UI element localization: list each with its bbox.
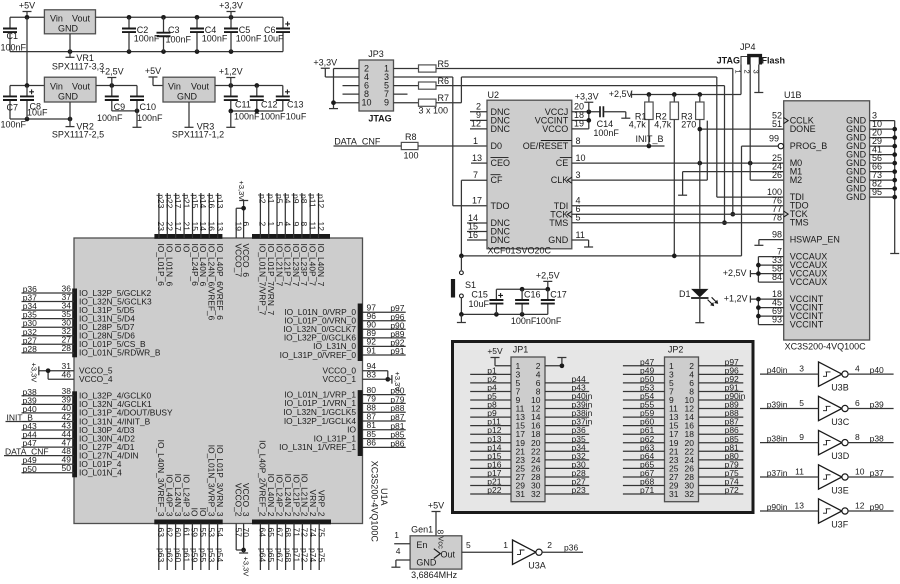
wire JP3 pins 2,10 ground net: [331, 69, 359, 109]
wire U1A pin 1 net p1: [266, 193, 276, 316]
svg-text:11: 11: [795, 467, 804, 477]
ground C11 bus: [226, 111, 235, 127]
svg-text:91: 91: [367, 345, 377, 355]
svg-text:10: 10: [855, 467, 865, 477]
svg-text:13: 13: [215, 222, 225, 232]
svg-text:U3C: U3C: [831, 417, 850, 427]
svg-text:19: 19: [574, 119, 584, 129]
svg-text:100nF: 100nF: [1, 119, 27, 129]
svg-text:IO_L40P_6/VREF_6: IO_L40P_6/VREF_6: [215, 244, 225, 321]
power symbol +3,3V: [219, 1, 243, 18]
svg-text:+5V: +5V: [145, 66, 161, 76]
inverter U3D: [819, 430, 850, 461]
wire U1A VCCO_0/VCCO_1 pins 94,83: [322, 361, 390, 384]
wire U1A pin 79 net p79: [284, 394, 405, 409]
svg-text:+3,3V: +3,3V: [237, 181, 246, 201]
svg-text:IO_L32P_1/GCLK4: IO_L32P_1/GCLK4: [284, 416, 357, 426]
resistor R7: [419, 93, 450, 116]
wire JP3 pin7 stub: [394, 93, 408, 95]
svg-text:U3F: U3F: [831, 520, 849, 530]
svg-text:4: 4: [855, 364, 860, 374]
wire U1A pin 67 net p67: [275, 474, 285, 570]
svg-text:U1A: U1A: [379, 488, 389, 506]
svg-text:10: 10: [576, 153, 586, 163]
wire U2 CF to S1 net: [461, 180, 487, 256]
wire +2,5V rail to JP4 pin1: [632, 65, 742, 97]
svg-text:100nF: 100nF: [1, 42, 27, 52]
wire U1A pin 37 net p37: [22, 292, 152, 307]
wire JP2 pin 2 net p97: [699, 357, 744, 367]
svg-text:8: 8: [576, 136, 581, 146]
svg-text:86: 86: [367, 438, 377, 448]
svg-text:JP2: JP2: [668, 345, 684, 355]
wire JP1 pin 16 net p37in: [545, 417, 593, 427]
wire JP2 pin 27 net p67: [623, 468, 665, 478]
capacitor C9: [97, 86, 125, 124]
svg-text:46: 46: [62, 370, 72, 380]
wire U1A pin 12 net p12: [316, 193, 326, 287]
resistor R8: [401, 132, 418, 160]
inverter U3C: [819, 396, 850, 427]
wire JP2 pin 1 net p47: [623, 357, 665, 367]
svg-text:PROG_B: PROG_B: [790, 141, 828, 151]
svg-text:p13: p13: [215, 194, 225, 208]
capacitor C3: [157, 17, 192, 51]
wire JP2 pin 16 net p87: [699, 417, 744, 427]
svg-text:100: 100: [404, 150, 419, 160]
wire U1A pin 80 net p80: [284, 385, 405, 400]
wire U2 pin 2 DNC stub: [470, 102, 487, 112]
svg-text:100nF: 100nF: [166, 35, 192, 45]
U1A bottom bank3 pin group bar: [154, 520, 222, 525]
wire U1A pin 49 net p49: [22, 455, 122, 470]
wire U1A pin 97 net p97: [284, 303, 405, 318]
wire JP1 pin 7 net p4: [470, 382, 511, 392]
svg-text:OE/RESET: OE/RESET: [523, 141, 569, 151]
wire JP2 pin 3 net p49: [623, 365, 665, 375]
svg-text:51: 51: [772, 119, 782, 129]
svg-text:GND: GND: [548, 235, 569, 245]
wire U1A pin 50 net p50: [22, 463, 123, 478]
inverter U3A: [513, 540, 546, 570]
resistor R2 4,7k: [654, 95, 678, 256]
svg-text:100nF: 100nF: [134, 34, 160, 44]
power symbol +5V at Gen1: [428, 501, 444, 536]
svg-text:p91: p91: [390, 346, 404, 356]
wire U1A VCCO_5/VCCO_4 pins 31,46: [46, 361, 113, 384]
power symbol +5V at JP1 pin1: [487, 346, 511, 366]
wire JP1 pin 15 net p11: [470, 417, 511, 427]
svg-text:12: 12: [855, 501, 865, 511]
svg-text:9: 9: [799, 432, 804, 442]
wire U1A pin 4 net p4: [283, 193, 293, 286]
wire U1A pin 55 net p55: [198, 508, 208, 570]
ground C14: [603, 112, 630, 118]
wire JP1 pin 27 net p17: [470, 468, 511, 478]
wire U1B HSWAP_EN to ground: [754, 229, 783, 245]
svg-text:+3,3V: +3,3V: [575, 91, 599, 101]
power symbol +1,2V: [219, 67, 243, 86]
svg-text:5: 5: [576, 213, 581, 223]
node U1B TDI number: [767, 187, 782, 197]
svg-text:+5V: +5V: [19, 1, 35, 11]
svg-text:C11: C11: [235, 99, 251, 109]
svg-text:Vout: Vout: [191, 82, 210, 92]
wire JP2 pin 14 net p88: [699, 408, 744, 418]
wire JP3 pin1 to R5: [394, 68, 419, 70]
svg-text:S1: S1: [465, 280, 476, 290]
connector frame JP1/JP2: [453, 342, 754, 513]
svg-text:8: 8: [436, 530, 446, 535]
svg-text:p22: p22: [487, 485, 501, 495]
wire JP1 pin 30 net p27: [545, 477, 589, 487]
wire JP1 pin 13 net p9: [470, 408, 511, 418]
wire U2 TDI from U1B TDO: [572, 196, 784, 206]
wire VR3 output +1,2V: [215, 83, 283, 88]
wire JP3 pin9 to R7: [394, 102, 419, 104]
ground JP4 pin3: [754, 65, 763, 93]
connector JP3 JTAG: [359, 49, 394, 124]
capacitor C16: [511, 289, 541, 326]
power symbol +1,2V at U1B VCCINT: [724, 294, 759, 304]
svg-text:U3E: U3E: [831, 486, 849, 496]
svg-text:100nF: 100nF: [97, 113, 123, 123]
node U2 pin1 D0 number: [473, 136, 478, 146]
svg-text:4,7k: 4,7k: [629, 119, 647, 129]
wire JP2 pin 5 net p50: [623, 374, 665, 384]
wire JP1 pin 21 net p14: [470, 442, 511, 452]
svg-text:1: 1: [473, 136, 478, 146]
svg-text:9: 9: [384, 98, 389, 108]
node U1B TMS number: [772, 212, 782, 222]
power symbol +3,3V top VCCO: [237, 181, 248, 209]
wire U1A pin 60 net p60: [173, 474, 183, 570]
svg-text:100nF: 100nF: [202, 34, 228, 44]
svg-text:2: 2: [547, 540, 552, 550]
svg-text:R7: R7: [438, 93, 450, 103]
wire TMS bus U2-U1B: [572, 213, 784, 223]
capacitor C4: [190, 17, 228, 51]
svg-text:+3,3V: +3,3V: [313, 58, 337, 68]
wire JP1 pin 32 net p23: [545, 485, 589, 495]
wire JP1 pin 24 net p32: [545, 451, 589, 461]
capacitor C1: [1, 17, 27, 52]
svg-text:+2,5V: +2,5V: [723, 268, 747, 278]
svg-text:6: 6: [241, 222, 251, 227]
svg-text:28: 28: [62, 343, 72, 353]
svg-text:270: 270: [681, 119, 696, 129]
svg-text:p37in: p37in: [767, 468, 788, 478]
capacitor C5: [224, 17, 262, 51]
wire Gen1 Out to U3A: [462, 540, 513, 552]
wire JP1 pin 22 net p34: [545, 442, 589, 452]
FPGA U1B XC3S200-4VQ100C: [784, 90, 870, 352]
svg-text:R5: R5: [438, 59, 450, 69]
wire JP2 pin 8 net p91: [699, 382, 744, 392]
wire U1A pin 21 net p21: [181, 193, 191, 253]
wire R8 to U2 D0: [418, 145, 487, 147]
svg-text:GND: GND: [177, 92, 198, 102]
wire JP2 pin 15 net p60: [623, 417, 665, 427]
svg-text:CEO: CEO: [491, 158, 511, 168]
svg-text:Vout: Vout: [72, 14, 91, 24]
svg-text:100nF: 100nF: [511, 316, 537, 326]
svg-text:TMS: TMS: [549, 218, 568, 228]
wire JP3 pin6 stub: [343, 85, 360, 87]
svg-text:IO_L01N_5/RDWR_B: IO_L01N_5/RDWR_B: [79, 348, 161, 358]
svg-text:Vout: Vout: [72, 82, 91, 92]
wire U1A pin 40 net p40: [22, 403, 173, 418]
svg-text:+2,5V: +2,5V: [536, 271, 560, 281]
svg-text:GND: GND: [846, 192, 867, 202]
wire R5 to TCK bus (net TCK): [436, 69, 735, 217]
wire U1B VCCAUX bus: [756, 246, 784, 282]
svg-text:32: 32: [685, 489, 695, 499]
svg-text:p71: p71: [640, 485, 654, 495]
wire U1A pin 75 net p75: [317, 490, 327, 570]
wire U1A pin 89 net p89: [284, 328, 406, 343]
node DATA_CNF: [334, 136, 381, 146]
capacitor C17: [536, 289, 567, 326]
regulator VR3 SPX1117-1,2: [163, 77, 224, 139]
wire U1A pin 68 net p68: [283, 474, 293, 570]
node U1B M0 number: [772, 153, 782, 163]
wire U1A pin 32 net p32: [22, 326, 136, 341]
svg-text:R8: R8: [405, 132, 417, 142]
wire PROG_B net to S1/R2: [459, 146, 741, 258]
svg-text:p40: p40: [870, 365, 884, 375]
wire JP1 pin 14 net p38in: [545, 408, 593, 418]
wire JP1 pin2 power stub: [545, 358, 566, 369]
svg-text:+1,2V: +1,2V: [219, 67, 243, 77]
svg-text:83: 83: [367, 370, 377, 380]
ground U1B GND bus: [890, 253, 899, 255]
svg-text:JP1: JP1: [513, 345, 529, 355]
svg-text:10uF: 10uF: [263, 34, 284, 44]
wire TCK bus U2-U1B: [572, 204, 784, 214]
capacitor C6 (polarized): [263, 17, 290, 51]
ground M1: [678, 194, 687, 196]
svg-text:VCCAUX: VCCAUX: [790, 277, 828, 287]
svg-text:1: 1: [503, 540, 508, 550]
wire U2 CLK from U1B CCLK: [572, 121, 708, 181]
wire U1A pin 30 net p30: [22, 318, 135, 333]
svg-text:C1: C1: [7, 31, 19, 41]
wire U1A pin 36 net p36: [22, 283, 152, 298]
svg-text:5: 5: [466, 540, 471, 550]
svg-text:CE: CE: [556, 158, 569, 168]
U1A left bank4 pin group bar: [72, 391, 77, 477]
wire JP2 pin 31 net p71: [623, 485, 665, 495]
wire U1A pin 61 net p61: [181, 474, 191, 570]
resistor R3 270: [681, 95, 704, 289]
wire U3B input net p40in: [760, 364, 819, 376]
wire JP1 pin 18 net p36: [545, 425, 589, 435]
svg-text:Vin: Vin: [50, 14, 63, 24]
wire U1B VCCINT bus: [756, 289, 784, 325]
svg-text:98: 98: [772, 229, 782, 239]
wire JP1 pin 9 net p5: [470, 391, 511, 401]
capacitor C2: [122, 17, 160, 51]
inverter U3B: [819, 362, 849, 393]
wire U1B M1 to ground: [683, 172, 784, 196]
wire VR2 output +2,5V: [96, 83, 137, 88]
power symbol +3,3V left VCCO: [29, 363, 48, 383]
wire U1A pin 96 net p96: [284, 311, 405, 326]
svg-text:+5V: +5V: [428, 501, 444, 511]
wire U1A pin 38 net p38: [22, 386, 152, 401]
wire JP2 pin 30 net p74: [699, 477, 744, 487]
resistor R5: [419, 59, 450, 72]
wire U1A pin 34 net p34: [22, 300, 135, 315]
svg-text:C17: C17: [550, 290, 567, 300]
svg-text:100nF: 100nF: [236, 34, 262, 44]
capacitor C10: [130, 86, 163, 124]
svg-text:93: 93: [772, 314, 782, 324]
svg-text:31: 31: [669, 489, 679, 499]
wire caps +2,5V rail: [496, 287, 550, 292]
svg-text:JP4: JP4: [740, 42, 756, 52]
wire JP2 pin 6 net p92: [699, 374, 744, 384]
capacitor C13 (polarized): [276, 86, 307, 122]
wire U1A pin 91 net p91: [280, 345, 406, 360]
capacitor C14: [593, 106, 619, 138]
FPGA U1A XC3S200-4VQ100C (I/O banks): [74, 238, 389, 542]
svg-text:+2,5V: +2,5V: [100, 67, 124, 77]
svg-text:50: 50: [62, 463, 72, 473]
svg-text:GND: GND: [58, 92, 79, 102]
wire U1A pin 59 net p59: [190, 508, 200, 570]
svg-text:+2,5V: +2,5V: [609, 89, 633, 99]
svg-text:p38in: p38in: [767, 434, 788, 444]
svg-text:3: 3: [799, 364, 804, 374]
wire U1A pin 42 net INIT_B: [6, 412, 151, 427]
wire U3B output net p40: [848, 364, 894, 376]
ground VR1: [66, 34, 75, 58]
svg-text:C10: C10: [140, 102, 157, 112]
wire row2 left ground bus: [10, 117, 72, 122]
svg-text:CF: CF: [491, 175, 503, 185]
svg-text:p12: p12: [316, 194, 326, 208]
svg-text:84: 84: [772, 272, 782, 282]
wire U1A pin 88 net p88: [283, 403, 405, 418]
svg-text:p39in: p39in: [767, 400, 788, 410]
wire U2 VCCJ/VCCINT/VCCO to +3,3V bus: [572, 102, 600, 129]
ground JP3: [329, 108, 338, 110]
ground VR2: [66, 102, 75, 127]
ground VR3: [185, 102, 194, 127]
wire U1A pin 14 net p14: [198, 193, 208, 287]
wire JP1 pin 3 net p1: [470, 365, 511, 375]
svg-text:54: 54: [215, 528, 225, 538]
svg-text:100nF: 100nF: [536, 316, 562, 326]
U1A right bank0 pin group bar: [358, 304, 363, 362]
wire JP2 pin 17 net p61: [623, 425, 665, 435]
inverter U3F: [819, 499, 849, 530]
wire JP2 pin 25 net p65: [623, 459, 665, 469]
pushbutton S1: [451, 256, 476, 315]
wire U1A pin 2 net p2: [258, 193, 268, 316]
wire JP1 pin 25 net p16: [470, 459, 511, 469]
svg-text:1: 1: [734, 70, 743, 74]
power symbol +2,5V rail: [609, 89, 633, 99]
wire U1A pin 39 net p39: [22, 395, 152, 410]
U1A right bank1 pin group bar: [358, 390, 363, 456]
wire U2 pin 12 DNC stub: [470, 119, 487, 129]
svg-text:p28: p28: [23, 344, 37, 354]
svg-text:Vcc: Vcc: [437, 536, 446, 549]
svg-text:95: 95: [872, 187, 882, 197]
svg-text:32: 32: [531, 489, 541, 499]
svg-text:Out: Out: [441, 550, 456, 560]
wire U1A pin 27 net p27: [22, 335, 146, 350]
U1A left bank5 pin group bar: [72, 289, 77, 358]
wire JP2 pin 29 net p68: [623, 477, 665, 487]
svg-text:IO_L31P_0/VREF_0: IO_L31P_0/VREF_0: [280, 350, 357, 360]
wire C9 bottom to C10: [112, 109, 140, 114]
svg-text:17: 17: [472, 196, 482, 206]
wire JP4 pin2 to M0/M2: [750, 65, 784, 181]
inverter U3E: [819, 465, 849, 496]
resistor R1 4,7k: [629, 95, 653, 147]
wire U1A pin 9 net p9: [291, 193, 301, 287]
svg-text:C16: C16: [524, 290, 541, 300]
svg-text:IO_L01N_4: IO_L01N_4: [79, 468, 122, 478]
svg-text:DATA_CNF: DATA_CNF: [334, 136, 381, 146]
wire Gen1 En stub pin 1: [394, 530, 410, 544]
svg-text:C7: C7: [7, 102, 19, 112]
wire U1A pin 47 net p47: [22, 437, 135, 452]
svg-text:D0: D0: [491, 141, 503, 151]
wire U1A pin 65 net p65: [266, 474, 276, 570]
svg-text:p72: p72: [725, 485, 739, 495]
svg-text:GND: GND: [58, 24, 79, 34]
svg-text:75: 75: [317, 528, 327, 538]
power symbol +5V for VR3: [145, 66, 161, 81]
svg-text:p86: p86: [390, 438, 404, 448]
node U2 pin17 TDO number: [472, 196, 482, 206]
svg-text:100nF: 100nF: [260, 111, 286, 121]
wire U1A VCCO_7/VCCO_6 pins 19,6: [234, 206, 251, 278]
wire U1B PROG_B (active low bubble): [742, 134, 784, 149]
U1A top bank7 pin group bar: [252, 234, 330, 239]
wire R7 to U1B TDI (net TDI): [436, 77, 784, 197]
svg-text:JP3: JP3: [368, 49, 384, 59]
wire U1A pin 86 net p86: [279, 438, 406, 453]
wire JP2 pin 22 net p81: [699, 442, 744, 452]
svg-text:13: 13: [795, 501, 805, 511]
wire U3E input net p37in: [760, 467, 819, 479]
wire U2 pin 13 CEO stub: [471, 153, 487, 163]
svg-text:HSWAP_EN: HSWAP_EN: [790, 235, 840, 245]
wire +5V rail down to VR2: [26, 17, 28, 85]
svg-text:XC3S200-4VQ100C: XC3S200-4VQ100C: [785, 342, 867, 352]
wire JP3 pin8 stub: [343, 93, 360, 95]
wire JP1 pin 23 net p15: [470, 451, 511, 461]
wire U1B CCLK: [772, 110, 782, 120]
svg-text:VRP_2: VRP_2: [317, 490, 327, 517]
wire JP1 pin 10 net p40in: [545, 391, 593, 401]
wire U1A pin 17 net p17: [173, 193, 183, 253]
svg-text:p39: p39: [870, 400, 884, 410]
wire U1A pin 5 net p5: [274, 193, 284, 287]
wire U1A pin 23 net p23: [156, 193, 166, 286]
flash PROM U2 XCF01SVO20C: [487, 90, 572, 256]
wire U1A pin 92 net p92: [313, 337, 406, 352]
wire JP2 pin 7 net p53: [623, 382, 665, 392]
svg-text:IO_L01P_3/VRN_3: IO_L01P_3/VRN_3: [215, 445, 225, 517]
svg-text:+3,3V: +3,3V: [242, 557, 251, 577]
